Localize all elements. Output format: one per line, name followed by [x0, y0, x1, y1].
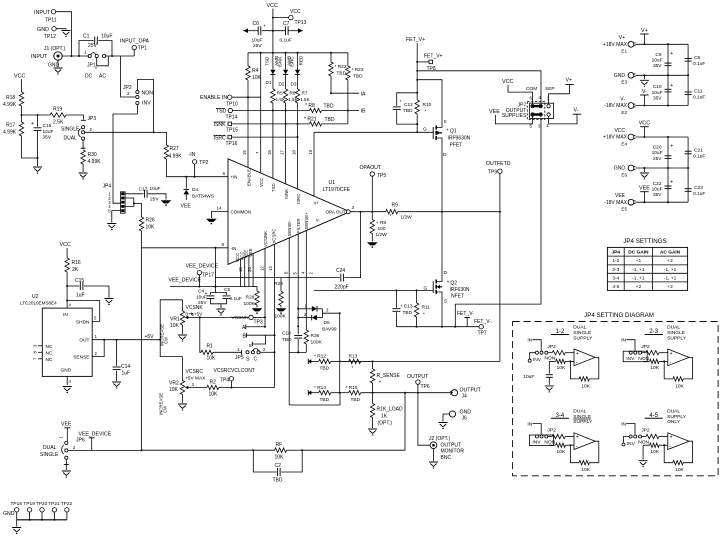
- capacitor C15 1uF: [67, 285, 79, 287]
- svg-text:IN: IN: [621, 421, 626, 427]
- capacitor C4 10uF 25V: [211, 287, 216, 295]
- wire TP11 to input node: [56, 12, 72, 56]
- mini 3-4 input resistor 10K: [548, 436, 552, 438]
- wire TSD line with R8 to IB: [233, 110, 310, 112]
- svg-text:4.99K: 4.99K: [88, 159, 102, 165]
- capacitor C20 10uF 25V: [667, 137, 669, 168]
- mini 4-5 INV pin: [624, 437, 630, 443]
- svg-text:JP3: JP3: [88, 116, 97, 122]
- svg-text:V+: V+: [314, 201, 320, 206]
- resistor R5 1.5K: [272, 74, 274, 89]
- resistor R23 TBD: [347, 53, 349, 66]
- svg-text:E1: E1: [621, 49, 627, 54]
- svg-text:R29: R29: [274, 281, 283, 287]
- wire input down to JP2: [121, 56, 136, 97]
- resistor R11: [416, 290, 418, 303]
- svg-text:INV: INV: [142, 101, 151, 107]
- svg-text:TBD: TBD: [320, 397, 330, 403]
- svg-text:C6: C6: [253, 21, 260, 27]
- svg-text:V-: V-: [574, 108, 579, 114]
- svg-text:VCC: VCC: [290, 9, 301, 15]
- svg-text:SINGLE: SINGLE: [573, 330, 592, 336]
- svg-text:JP4: JP4: [103, 184, 112, 190]
- svg-text:V-: V-: [316, 218, 321, 223]
- resistor R8 TBD: [310, 108, 322, 112]
- svg-text:D2: D2: [279, 82, 285, 87]
- svg-text:VEE: VEE: [615, 193, 626, 199]
- svg-text:R30: R30: [88, 152, 97, 158]
- wire top rail: [636, 136, 689, 138]
- wire TP12 to ground: [56, 28, 66, 31]
- svg-text:6: 6: [223, 171, 226, 176]
- wire J1 to JP1: [62, 55, 90, 57]
- ground below R29 (solid): [276, 309, 285, 312]
- svg-text:V+: V+: [566, 78, 573, 84]
- wire Q1 drain to output: [441, 147, 443, 212]
- resistor R12 TBD: [313, 360, 319, 362]
- wire bottom rail: [636, 201, 689, 203]
- wire FET_V+ to JP7 COM: [417, 71, 541, 105]
- svg-text:-IN: -IN: [231, 246, 237, 251]
- svg-text:0.1uF: 0.1uF: [693, 154, 705, 160]
- svg-text:TBD: TBD: [403, 310, 413, 316]
- svg-text:2: 2: [90, 127, 93, 132]
- svg-text:100K: 100K: [311, 340, 323, 346]
- wire op amp output: [350, 211, 386, 213]
- svg-text:TBD: TBD: [324, 104, 334, 110]
- svg-text:+18V MAX: +18V MAX: [603, 42, 628, 48]
- svg-text:C15: C15: [75, 278, 84, 284]
- wire U2 SENSE tie: [92, 340, 104, 357]
- wire mid rail: [636, 74, 689, 76]
- svg-text:J2 (OPT.): J2 (OPT.): [429, 436, 450, 442]
- capacitor C14 1uF: [116, 340, 118, 366]
- capacitor C5 0.1uF: [215, 293, 226, 295]
- svg-text:C23: C23: [694, 185, 703, 191]
- svg-text:8: 8: [222, 242, 225, 247]
- svg-text:SUPPLY: SUPPLY: [667, 335, 687, 341]
- svg-text:-18V MAX: -18V MAX: [604, 103, 627, 109]
- svg-text:2K: 2K: [72, 267, 79, 273]
- wire SENSE- pin column: [288, 238, 290, 405]
- capacitor C1 10uF 25V (AC coupling): [79, 41, 94, 57]
- svg-text:G: G: [423, 127, 427, 133]
- svg-text:R9: R9: [392, 203, 399, 209]
- wire ISRC line: [232, 136, 298, 138]
- svg-text:SUPPLY: SUPPLY: [573, 419, 593, 425]
- svg-text:BAV99: BAV99: [322, 327, 337, 333]
- svg-text:+2: +2: [636, 284, 642, 290]
- svg-text:-1, +1: -1, +1: [664, 267, 677, 273]
- ground below R28 (solid): [252, 309, 261, 312]
- svg-text:IRF630N: IRF630N: [450, 287, 470, 293]
- svg-text:JP6: JP6: [76, 438, 85, 444]
- svg-text:DUAL: DUAL: [573, 409, 586, 415]
- svg-text:0.1uF: 0.1uF: [693, 61, 705, 67]
- svg-text:VCSINK: VCSINK: [263, 231, 268, 247]
- wire JP4 pin1 to C17: [125, 193, 144, 195]
- svg-text:TP15: TP15: [226, 128, 238, 134]
- bypass line with off-page arrows: [243, 30, 258, 32]
- resistor R14 TBD: [319, 391, 331, 395]
- svg-text:19: 19: [308, 149, 313, 154]
- svg-text:MONITOR: MONITOR: [441, 449, 465, 455]
- svg-text:25V: 25V: [253, 43, 262, 49]
- svg-text:GND: GND: [61, 368, 72, 374]
- svg-text:100: 100: [378, 226, 386, 232]
- mini 2-3 op-amp: [668, 349, 689, 366]
- svg-text:VCC: VCC: [267, 3, 278, 9]
- svg-text:GND: GND: [460, 410, 472, 416]
- wire JP2 NON pin up and right (feedback input select): [137, 80, 153, 133]
- svg-text:C12: C12: [404, 102, 413, 108]
- capacitor C17 10uF 25V: [144, 190, 146, 198]
- wire JP4 pin5 to ground: [112, 211, 121, 223]
- svg-text:+: +: [670, 435, 673, 441]
- svg-text:-: -: [576, 443, 578, 449]
- resistor R17 4.99K: [19, 122, 23, 136]
- svg-text:DC GAIN: DC GAIN: [628, 250, 649, 256]
- svg-text:10uF: 10uF: [523, 374, 534, 380]
- wire VR1 wiper to TP3: [190, 316, 249, 318]
- wire ENABLE pin15 column: [247, 97, 249, 167]
- svg-text:10K: 10K: [207, 356, 217, 362]
- svg-text:ISNK: ISNK: [277, 56, 282, 68]
- svg-text:+IN: +IN: [231, 175, 238, 180]
- mini 3-4 inverting resistor 10K: [549, 444, 556, 446]
- svg-text:ISNK: ISNK: [284, 189, 289, 199]
- svg-text:JP4: JP4: [612, 250, 621, 256]
- svg-text:VEE: VEE: [61, 422, 72, 428]
- ground below R30: [79, 173, 88, 179]
- svg-text:TP3: TP3: [254, 320, 263, 326]
- svg-text:10uF: 10uF: [101, 34, 112, 40]
- svg-text:-1, +1: -1, +1: [632, 267, 645, 273]
- svg-text:FET_V-.: FET_V-.: [474, 319, 492, 325]
- svg-text:* C13: * C13: [401, 304, 413, 310]
- potentiometer VR1 10K VCSNK: [182, 300, 184, 311]
- svg-text:VCC: VCC: [14, 74, 25, 80]
- resistor R10 (gate): [416, 96, 418, 100]
- svg-text:C: C: [254, 357, 258, 363]
- svg-text:1K: 1K: [381, 414, 388, 420]
- wire mid rail: [636, 167, 689, 169]
- resistor R7 1.5K: [297, 74, 299, 89]
- svg-text:10K: 10K: [170, 323, 180, 329]
- ground at J6: [439, 423, 448, 429]
- capacitor C16 10uF 35V: [37, 114, 39, 116]
- lower output line: [313, 392, 319, 394]
- wire JP7 COM column down to FET_V-: [455, 120, 541, 327]
- svg-text:C16: C16: [43, 123, 52, 129]
- svg-text:C1: C1: [83, 34, 90, 40]
- svg-text:OPA OUT: OPA OUT: [326, 209, 346, 214]
- potentiometer VR2 10K VCSRC: [182, 357, 184, 381]
- wire divider node to R19: [22, 114, 51, 116]
- U2 GND pin to ground: [66, 376, 68, 385]
- svg-text:*: *: [379, 381, 381, 387]
- svg-text:+: +: [576, 351, 579, 357]
- svg-text:TP13: TP13: [295, 20, 307, 26]
- svg-text:-: -: [576, 360, 578, 366]
- svg-text:INCREASE: INCREASE: [158, 393, 163, 415]
- svg-text:OUTPUT: OUTPUT: [460, 388, 482, 394]
- net IA: [331, 92, 359, 94]
- node input junction: [71, 55, 73, 57]
- terminal E6 GND: [628, 165, 634, 171]
- VCC/VEE supply pin columns: [240, 259, 242, 287]
- wire C24 corner to VEE_DEVICE line: [215, 278, 217, 287]
- svg-text:VCSRC: VCSRC: [186, 369, 204, 375]
- op-amp U1 LT1970CFE: [228, 159, 350, 265]
- wire -IN feedback column: [216, 248, 340, 278]
- svg-text:10K: 10K: [146, 225, 156, 231]
- svg-text:10K: 10K: [581, 467, 590, 473]
- svg-text:13: 13: [268, 266, 273, 271]
- ground right of C15: [105, 299, 114, 305]
- svg-text:C20: C20: [653, 145, 662, 151]
- svg-text:+5V MAX: +5V MAX: [185, 376, 206, 382]
- resistor R21 TBD: [310, 122, 322, 126]
- svg-text:20: 20: [247, 267, 252, 272]
- svg-text:25V: 25V: [88, 43, 98, 49]
- LED D2 ISNK AMB: [285, 53, 287, 70]
- mini 2-3 inverting resistor 10K: [643, 360, 650, 362]
- svg-text:E6: E6: [621, 172, 627, 177]
- svg-text:INPUT_OPA: INPUT_OPA: [120, 39, 150, 45]
- svg-text:JP2: JP2: [123, 85, 132, 91]
- svg-text:-IN: -IN: [189, 152, 196, 158]
- svg-text:1uF: 1uF: [76, 293, 85, 299]
- svg-text:BAT54WS: BAT54WS: [192, 194, 214, 200]
- LED D1 TSD AMB: [272, 53, 274, 70]
- svg-text:2: 2: [127, 91, 130, 96]
- capacitor C22 10uF 35V: [667, 168, 669, 202]
- resistor R4 10K (enable pullup): [247, 53, 249, 66]
- resistor R8A 100 1/2W to ground: [371, 212, 373, 220]
- wire VCC pin7 column: [260, 53, 262, 173]
- svg-text:D: D: [443, 152, 447, 158]
- wire JP7 to V+: [549, 85, 570, 105]
- svg-text:* R15: * R15: [346, 385, 358, 391]
- svg-text:R6: R6: [290, 91, 296, 96]
- test point TP13 VCC: [273, 17, 289, 19]
- mini 1-2 op-amp: [574, 349, 595, 366]
- svg-text:U2: U2: [32, 294, 39, 300]
- svg-text:100K: 100K: [275, 314, 287, 320]
- svg-text:C24: C24: [336, 268, 345, 274]
- svg-text:DUAL: DUAL: [667, 325, 680, 331]
- svg-text:25V: 25V: [150, 197, 159, 203]
- svg-text:TP2: TP2: [199, 160, 208, 166]
- svg-text:TP16: TP16: [226, 141, 238, 147]
- svg-text:-1, +1: -1, +1: [664, 275, 677, 281]
- svg-text:2-3: 2-3: [612, 267, 619, 273]
- svg-text:E3: E3: [621, 80, 627, 85]
- svg-text:C8: C8: [694, 55, 700, 61]
- svg-text:DUAL: DUAL: [667, 409, 680, 415]
- svg-text:SHDN: SHDN: [76, 320, 90, 326]
- svg-text:1/2W: 1/2W: [376, 232, 388, 238]
- svg-text:ISRC: ISRC: [214, 135, 227, 141]
- svg-text:TP21: TP21: [48, 501, 60, 507]
- mini 1-2 INV pin: [530, 353, 536, 359]
- svg-text:+: +: [205, 291, 208, 297]
- mini 1-2 feedback resistor 10K: [569, 360, 571, 362]
- ground at TP12: [62, 31, 71, 37]
- svg-text:AC: AC: [99, 74, 106, 80]
- svg-text:TBD: TBD: [337, 71, 347, 77]
- svg-text:J4: J4: [462, 394, 468, 400]
- svg-text:ISNK: ISNK: [214, 122, 227, 128]
- svg-text:TBD: TBD: [282, 337, 292, 343]
- svg-text:C11: C11: [694, 89, 703, 95]
- wire JP6 pin2 line to VEE_DEVICE column: [68, 449, 142, 451]
- svg-text:S: S: [444, 119, 447, 125]
- feedback line to RF: [302, 393, 405, 451]
- dashed box JP4 setting diagram: [513, 322, 719, 476]
- mini 2-3 INV/NON box: [623, 351, 647, 362]
- svg-text:JP5: JP5: [235, 355, 244, 361]
- resistor R1 10K: [200, 317, 201, 352]
- svg-text:+: +: [670, 351, 673, 357]
- svg-text:IA: IA: [361, 91, 366, 97]
- svg-text:NC: NC: [46, 357, 53, 363]
- svg-text:C7: C7: [283, 21, 290, 27]
- node JP3 line joins input column: [153, 131, 155, 133]
- terminal E5 VEE: [628, 199, 634, 205]
- svg-text:IN: IN: [63, 312, 68, 318]
- svg-text:VEE_DEVICE: VEE_DEVICE: [169, 278, 202, 284]
- svg-text:R1: R1: [207, 344, 214, 350]
- svg-text:1.5K: 1.5K: [300, 97, 310, 102]
- svg-text:R_SENSE: R_SENSE: [377, 373, 401, 379]
- svg-text:TP5: TP5: [377, 173, 386, 179]
- svg-text:5: 5: [249, 343, 252, 348]
- svg-text:16: 16: [267, 150, 272, 155]
- ground below C14: [112, 382, 121, 388]
- mini 2-3 input resistor 10K: [642, 352, 646, 354]
- node divider: [21, 114, 23, 116]
- svg-text:35V: 35V: [653, 63, 662, 69]
- svg-text:JP2: JP2: [547, 428, 556, 434]
- svg-text:ISRC: ISRC: [289, 56, 294, 68]
- svg-text:*: *: [264, 25, 266, 31]
- ground below TP row: [16, 520, 18, 527]
- svg-text:-18V MAX: -18V MAX: [604, 200, 627, 206]
- svg-text:D: D: [444, 270, 448, 276]
- svg-text:220pF: 220pF: [335, 285, 349, 291]
- svg-text:TBD: TBD: [325, 117, 335, 123]
- mini 1-2 input resistor 10K: [548, 352, 552, 354]
- svg-text:TP7: TP7: [478, 331, 487, 337]
- svg-text:TP12: TP12: [44, 34, 56, 40]
- svg-text:R2: R2: [210, 380, 217, 386]
- resistor R6 1.5K: [285, 74, 287, 89]
- svg-text:OUTFETD: OUTFETD: [486, 161, 511, 167]
- capacitor C10 10uF 35V: [667, 75, 669, 105]
- svg-text:10K: 10K: [557, 449, 566, 455]
- svg-text:25V: 25V: [653, 156, 662, 162]
- svg-text:10K: 10K: [650, 365, 659, 371]
- svg-text:R4: R4: [252, 68, 259, 74]
- svg-text:10K: 10K: [557, 365, 566, 371]
- capacitor C24 220pF: [340, 274, 342, 282]
- wire SENSE- to R14 line: [289, 393, 340, 405]
- transistor Q2 IRF630N NFET: [441, 212, 443, 279]
- wire TP9 column to output rail: [499, 212, 501, 362]
- wire bottom rail: [636, 105, 689, 107]
- svg-text:COMMON: COMMON: [231, 209, 252, 214]
- svg-text:DC: DC: [85, 74, 93, 80]
- svg-text:3-4: 3-4: [612, 275, 619, 281]
- svg-text:D1: D1: [266, 80, 272, 85]
- terminal J4 OUTPUT: [451, 390, 457, 396]
- svg-text:OUTPUT: OUTPUT: [407, 374, 429, 380]
- svg-text:RED: RED: [299, 55, 304, 66]
- svg-text:R17: R17: [6, 123, 15, 129]
- mini 2-3 feedback resistor 10K: [663, 360, 665, 362]
- wire top rail: [636, 43, 689, 45]
- svg-text:VR2: VR2: [169, 381, 179, 387]
- svg-text:10uF: 10uF: [652, 90, 663, 96]
- svg-text:1/2W: 1/2W: [401, 215, 413, 221]
- mini 4-5 input resistor 10K: [642, 436, 646, 438]
- svg-text:E5: E5: [621, 207, 627, 212]
- svg-text:* R14: * R14: [314, 385, 326, 391]
- terminal E2 V-: [628, 103, 634, 109]
- svg-text:+: +: [576, 435, 579, 441]
- svg-text:* R8: * R8: [305, 103, 315, 109]
- wire to R27: [154, 132, 167, 145]
- svg-text:DUAL: DUAL: [64, 136, 78, 142]
- svg-text:10K: 10K: [650, 449, 659, 455]
- svg-text:FET_V+: FET_V+: [406, 37, 425, 43]
- svg-text:D4: D4: [192, 187, 198, 193]
- svg-text:INPUT: INPUT: [34, 10, 51, 16]
- ground below C17 (solid): [161, 201, 170, 204]
- svg-text:-1, +1: -1, +1: [632, 275, 645, 281]
- svg-text:FET_V-: FET_V-: [457, 311, 474, 317]
- svg-text:DUAL: DUAL: [573, 325, 586, 331]
- wire output line to FET drains: [398, 211, 500, 213]
- svg-text:TP10: TP10: [226, 102, 238, 108]
- svg-text:VEE: VEE: [489, 109, 500, 115]
- test point TP8 FET_V+: [417, 61, 429, 63]
- svg-text:PFET: PFET: [450, 143, 463, 149]
- svg-text:S: S: [444, 299, 447, 305]
- resistor R_SENSE: [372, 361, 374, 369]
- svg-text:SEP: SEP: [545, 86, 555, 92]
- svg-text:JP2: JP2: [547, 344, 556, 350]
- mini 4-5 op-amp: [668, 433, 689, 450]
- terminal E3 GND: [628, 72, 634, 78]
- svg-text:R27: R27: [170, 146, 179, 152]
- svg-text:VCC: VCC: [502, 79, 513, 85]
- VCC distribution rail: [248, 52, 348, 54]
- svg-text:-: -: [670, 443, 672, 449]
- capacitor C13 TBD: [395, 290, 397, 307]
- svg-text:0.1uF: 0.1uF: [280, 38, 292, 44]
- svg-text:10K: 10K: [675, 383, 684, 389]
- svg-text:INV: INV: [626, 356, 635, 362]
- svg-text:35V: 35V: [43, 135, 52, 141]
- svg-text:VR1: VR1: [170, 317, 180, 323]
- svg-text:+: +: [670, 144, 673, 150]
- svg-text:ONLY: ONLY: [667, 419, 681, 425]
- wire FILTER pin column with D5 taps: [297, 234, 299, 335]
- wire ENABLE line: [232, 96, 261, 98]
